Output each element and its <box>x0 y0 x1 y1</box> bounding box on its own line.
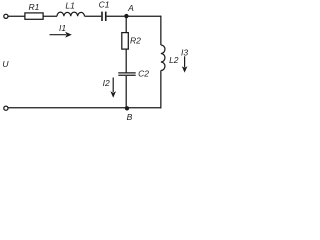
svg-text:L1: L1 <box>65 0 75 10</box>
svg-text:C1: C1 <box>99 0 110 10</box>
svg-text:C2: C2 <box>138 69 149 79</box>
svg-text:U: U <box>2 59 9 69</box>
svg-text:B: B <box>127 112 133 122</box>
svg-text:R1: R1 <box>28 2 39 12</box>
svg-text:A: A <box>127 3 134 13</box>
svg-text:L2: L2 <box>169 55 179 65</box>
svg-text:I3: I3 <box>181 48 188 58</box>
svg-text:I1: I1 <box>59 23 66 33</box>
svg-text:I2: I2 <box>103 78 110 88</box>
svg-text:R2: R2 <box>130 35 141 45</box>
